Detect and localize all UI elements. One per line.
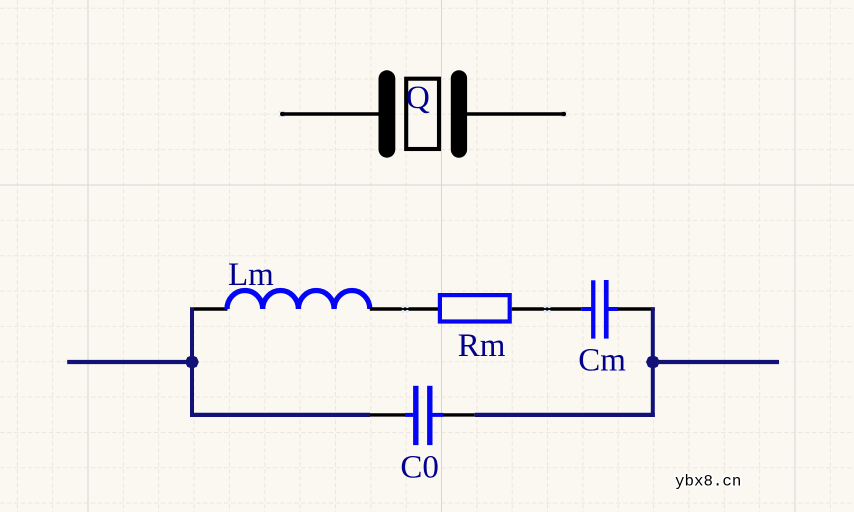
joint marker dots at x~405 [401,305,409,313]
wire: Cm to right corner (black) [618,307,655,310]
wire: inductor to resistor (black) [370,307,438,310]
wire: crystal right lead [467,112,565,115]
svg-text:Rm: Rm [458,328,506,364]
wire: left input lead [67,360,192,364]
node: crystal left pin end dot [280,112,285,117]
capacitor C0 left stub [405,413,413,417]
wire: resistor to Cm (black) [512,307,582,310]
crystal body rectangle [406,79,439,149]
crystal left electrode plate [379,70,396,157]
wire: bottom branch right (navy) [475,413,655,417]
wire: crystal left lead [281,112,380,115]
wire: right vertical branch [651,307,655,417]
pin: C0 left lead (black) [370,413,405,416]
node B: right junction dot [646,355,660,369]
pin: inductor left lead (black) [194,307,228,310]
svg-text:C0: C0 [400,450,439,486]
wire: right output lead [653,360,779,364]
svg-text:Cm: Cm [578,342,626,378]
svg-text:Q: Q [406,80,430,116]
wire: left vertical branch [190,307,194,417]
wire: bottom branch left (navy) [190,413,370,417]
inductor Lm [227,291,370,310]
capacitor Cm left stub [581,307,591,311]
node: crystal right pin end dot [562,112,567,117]
pin tip marker right (pale cross) [561,111,567,117]
capacitor Cm left plate [591,280,595,338]
svg-text:Lm: Lm [228,257,274,293]
capacitor C0 left plate [413,386,418,445]
capacitor Cm right stub [609,307,619,311]
pin: C0 right lead (black) [444,413,475,416]
watermark ybx8.cn [675,473,741,491]
capacitor C0 right plate [427,386,432,445]
svg-text:ybx8.cn: ybx8.cn [675,473,741,491]
node A: left junction dot [185,355,199,369]
crystal right electrode plate [451,70,467,157]
capacitor Cm right plate [604,280,609,339]
pin tip marker left (pale cross) [279,111,285,117]
capacitor C0 right stub [433,413,444,417]
resistor Rm [440,295,510,321]
joint marker dots at x~547 [543,305,550,313]
